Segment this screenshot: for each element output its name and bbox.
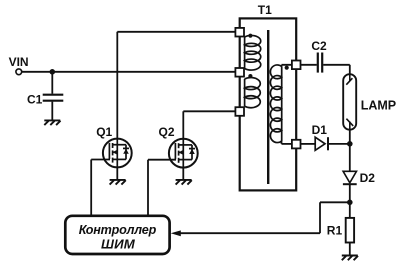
svg-text:T1: T1 [258, 3, 272, 17]
svg-text:C1: C1 [27, 92, 43, 106]
svg-text:ШИМ: ШИМ [101, 236, 136, 251]
svg-text:LAMP: LAMP [361, 99, 396, 113]
svg-text:VIN: VIN [9, 55, 29, 69]
svg-text:C2: C2 [311, 39, 327, 53]
svg-text:Q2: Q2 [159, 125, 175, 139]
svg-text:R1: R1 [327, 224, 343, 238]
svg-text:D1: D1 [312, 123, 328, 137]
svg-text:Контроллер: Контроллер [79, 223, 157, 237]
svg-text:D2: D2 [360, 171, 376, 185]
svg-text:Q1: Q1 [96, 125, 112, 139]
